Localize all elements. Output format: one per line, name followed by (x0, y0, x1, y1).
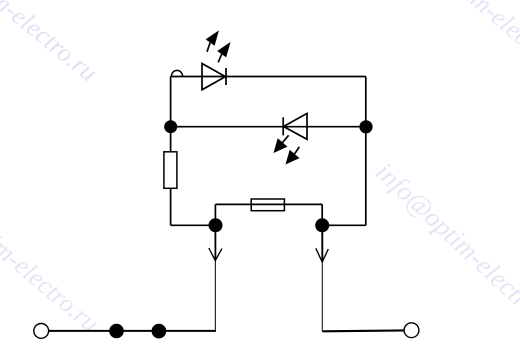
LED D2 light arrow 1 (274, 135, 289, 153)
terminal left open circle (34, 324, 49, 339)
resistor R1 vertical (164, 152, 177, 189)
junction dot left mid (164, 120, 177, 133)
svg-text:optim-electro.ru: optim-electro.ru (0, 207, 105, 338)
resistor R2 horizontal (fuse style) (251, 199, 284, 211)
wire left vertical (170, 77, 172, 226)
LED D2 triangle (284, 113, 308, 139)
wire right vertical (365, 77, 367, 226)
LED D2 cathode bar (282, 117, 284, 135)
terminal right open circle (404, 323, 419, 338)
wire right drop lower (321, 261, 323, 331)
wire left drop upper (214, 225, 216, 259)
wire hop loop at top-left corner (171, 70, 182, 76)
LED D1 triangle (202, 64, 225, 90)
wire bottom-left horizontal (49, 330, 217, 332)
junction dot bridge right (315, 218, 329, 232)
wire bottom-right of loop (322, 224, 366, 226)
wire bottom-right horizontal (322, 329, 404, 332)
wire right drop upper (321, 225, 323, 261)
wire bridge left riser (214, 204, 216, 225)
junction dot right mid (359, 120, 372, 133)
arrow down right (V head) (316, 248, 329, 262)
junction dot bottom 2 (152, 324, 167, 339)
wire bottom-left of loop (171, 224, 216, 226)
LED D1 cathode bar (225, 68, 227, 85)
wire bridge right riser (321, 204, 323, 225)
wire left drop lower (214, 259, 216, 331)
wire bridge horizontal (215, 203, 322, 205)
wire top horizontal (171, 76, 366, 78)
svg-text:info@optim-electro.ru: info@optim-electro.ru (370, 156, 520, 343)
LED D2 light arrow 2 (286, 147, 300, 165)
LED D1 light arrow 2 (217, 42, 230, 62)
wire middle horizontal (171, 126, 366, 128)
arrow down left (V head) (209, 248, 222, 261)
junction dot bottom 1 (109, 324, 124, 339)
LED D1 light arrow 1 (206, 30, 219, 51)
svg-text:optim-electro.ru: optim-electro.ru (434, 0, 520, 89)
junction dot bridge left (209, 218, 223, 232)
svg-text:optim-electro.ru: optim-electro.ru (0, 0, 103, 87)
